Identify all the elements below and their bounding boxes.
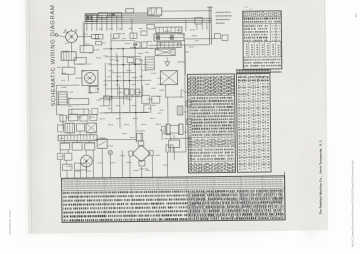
svg-text:The Rudolph Wurlitzer Co., N: The Rudolph Wurlitzer Co., North Tonawan… xyxy=(318,140,322,215)
resistor R17 xyxy=(72,143,82,151)
bottom table right edge rule xyxy=(284,172,287,220)
resistor R16 xyxy=(76,124,84,132)
capacitor C19 (bottom of bridge) xyxy=(139,160,145,166)
wire xyxy=(184,38,215,40)
wire xyxy=(149,44,209,47)
speaker SP1 (voice coil diamond) xyxy=(132,145,141,154)
capacitor C2 xyxy=(155,49,175,56)
wire xyxy=(95,138,136,140)
capacitor C4 xyxy=(186,101,191,107)
coupling network boxes xyxy=(104,96,110,106)
capacitor C23 xyxy=(85,143,95,150)
resistor R12 xyxy=(141,31,147,35)
output transformer T3 xyxy=(160,71,177,85)
capacitor C11 xyxy=(142,42,148,48)
terminal row X1 xyxy=(156,27,182,33)
capacitor C13 xyxy=(74,58,86,65)
mesh tie wires xyxy=(105,55,141,57)
capacitor C24 xyxy=(64,153,72,160)
tube V2 socket xyxy=(82,70,98,85)
wire xyxy=(170,124,178,126)
resistor R3 xyxy=(69,109,89,115)
capacitor C15 xyxy=(214,34,220,39)
terminal strip TB3 xyxy=(110,13,122,18)
tube V3 (output, side view) xyxy=(166,124,170,135)
wire xyxy=(56,84,79,86)
capacitor C6 xyxy=(60,143,70,150)
tube V4 (output, side view) xyxy=(178,124,183,135)
wire drops right xyxy=(196,24,198,30)
transformer T1 xyxy=(61,52,76,61)
grid resistor cluster xyxy=(95,34,103,39)
terminal strip TB2 xyxy=(99,13,108,18)
resistor R20 xyxy=(74,163,86,170)
grid stopper dashes xyxy=(116,53,118,61)
note text block xyxy=(216,11,231,13)
connector block J1 xyxy=(126,9,134,13)
wire xyxy=(55,85,57,115)
resistor R2 xyxy=(69,99,89,105)
cathode resistor R13 xyxy=(161,126,165,132)
capacitor bank C12 xyxy=(125,89,129,95)
wire B+ rail xyxy=(185,40,186,152)
wire drops from harness xyxy=(87,15,132,35)
resistor R21 xyxy=(144,105,151,113)
wire harness bus (6 parallel leads) xyxy=(85,12,212,23)
resistor R1 xyxy=(91,34,98,38)
input jack J2 xyxy=(55,34,58,37)
capacitor C16 xyxy=(222,35,228,41)
relay box K1 xyxy=(195,18,203,24)
resistor R4 xyxy=(147,24,155,29)
ground symbol xyxy=(165,61,170,63)
pilot lamp DS1 xyxy=(108,150,112,154)
wire xyxy=(166,152,168,176)
parts list header band xyxy=(236,69,281,73)
resistor R10 xyxy=(142,95,150,103)
fuse F1 xyxy=(166,145,169,152)
capacitor C8 xyxy=(152,96,160,103)
scan grain noise xyxy=(26,0,329,234)
parts list table (left section) xyxy=(187,74,235,173)
terminal strip TB4 xyxy=(58,135,97,141)
resistor row xyxy=(157,42,181,48)
wire mains run xyxy=(59,141,95,143)
wire xyxy=(185,20,187,31)
module box A1 xyxy=(148,8,162,16)
terminal left xyxy=(129,151,133,156)
resistor R5 xyxy=(169,140,180,148)
terminal right xyxy=(149,151,154,156)
page right edge shadow line xyxy=(325,0,326,118)
wire drops to terminal chart xyxy=(60,148,152,178)
power transformer T4 xyxy=(65,123,75,133)
capacitor C17 xyxy=(177,106,183,115)
wiring mesh verticals xyxy=(105,32,142,142)
main parts list table (bottom) xyxy=(62,176,285,223)
choke L4 above bridge xyxy=(137,133,143,141)
svg-text:1/1: 1/1 xyxy=(354,13,358,18)
capacitor C22 xyxy=(57,125,63,132)
capacitor C9 xyxy=(113,34,119,39)
pin circles xyxy=(64,30,66,32)
resistor R19 xyxy=(62,164,72,170)
capacitor C14 xyxy=(89,86,98,92)
capacitor C21 xyxy=(90,114,97,120)
heater loop wire xyxy=(161,134,163,140)
resistor R7 xyxy=(127,58,134,63)
wire bends into module A1 xyxy=(148,9,151,13)
scanned page background xyxy=(26,0,329,234)
capacitor C5 xyxy=(186,119,191,125)
smudge marks above chart xyxy=(245,6,249,8)
wire xyxy=(140,132,142,140)
capacitor C10 xyxy=(130,33,137,39)
terminal strip TB1 xyxy=(85,14,97,21)
wire xyxy=(162,10,212,13)
junction dots xyxy=(110,48,136,114)
wire xyxy=(67,60,69,67)
capacitor C3 xyxy=(145,57,154,70)
capacitor C18 (top of bridge) xyxy=(138,141,144,146)
wire xyxy=(71,109,73,114)
capacitor C20 xyxy=(60,115,67,121)
fuse F2 xyxy=(170,145,173,152)
svg-text:10/13/2023, 14:40: 10/13/2023, 14:40 xyxy=(8,210,12,235)
svg-text:file:///C:/Users/Downloads/Wur: file:///C:/Users/Downloads/Wurlitzer%205… xyxy=(351,160,355,247)
tube voltage chart table xyxy=(243,11,282,69)
tube V1 (socket top view) xyxy=(66,31,78,43)
resistor R8 xyxy=(135,59,141,64)
wiring mesh horizontals xyxy=(99,48,160,113)
page left edge shadow line xyxy=(29,0,32,233)
switch S1 xyxy=(97,139,107,149)
capacitor C1 xyxy=(62,67,75,74)
wire xyxy=(174,151,185,153)
twin drop wires xyxy=(82,22,84,46)
long vertical feed wires xyxy=(119,86,121,129)
resistor R15 xyxy=(80,115,88,121)
wire xyxy=(58,35,64,37)
wire xyxy=(177,61,185,63)
resistor R18 xyxy=(57,153,63,159)
transformer T2 (interstage) xyxy=(154,34,184,41)
resistor R11 xyxy=(80,45,93,52)
capacitor C7 xyxy=(92,108,98,114)
wire xyxy=(80,35,92,37)
resistor R9 xyxy=(134,42,140,48)
antenna lead (twin wire) xyxy=(208,7,210,44)
parts list table (right section) xyxy=(236,73,271,172)
wire xyxy=(167,97,169,124)
filter choke L3 xyxy=(86,123,97,133)
resistor R14 xyxy=(68,114,78,121)
wire xyxy=(89,86,91,93)
bus bars xyxy=(100,97,130,99)
choke L1 xyxy=(58,92,67,105)
rectifier tube V5 xyxy=(81,155,93,167)
wire xyxy=(71,45,73,52)
wire plate leads xyxy=(165,96,184,98)
component value labels xyxy=(56,28,201,172)
